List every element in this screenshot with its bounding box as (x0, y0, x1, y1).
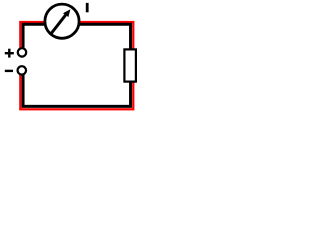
label + (5, 52, 14, 54)
terminal - node (18, 66, 26, 74)
meter arrowhead (63, 9, 70, 17)
meter needle arrow (51, 16, 65, 34)
node gap between source terminals (14, 57, 30, 66)
op-amp meter M1 circle (45, 4, 79, 38)
wire : outer red loop (20, 22, 133, 109)
label I (86, 3, 89, 12)
resistor R1 (124, 49, 135, 81)
terminal + node (18, 48, 26, 56)
wire : inner black loop (23, 24, 131, 106)
label - (5, 70, 13, 72)
